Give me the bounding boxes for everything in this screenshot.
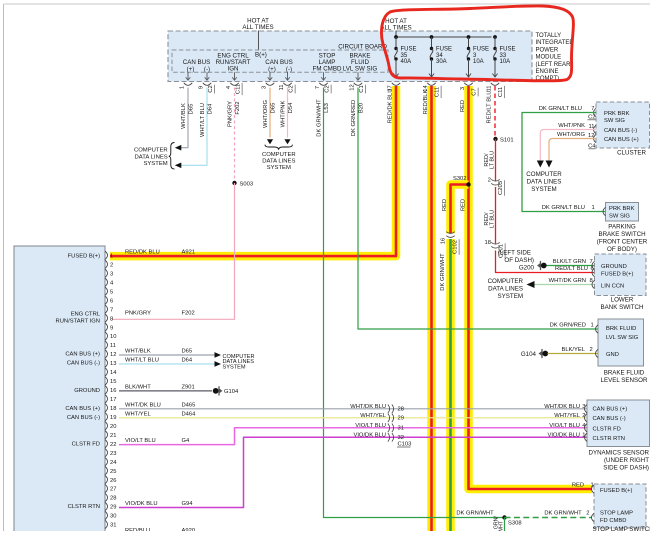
- svg-text:12: 12: [350, 84, 356, 90]
- brake fluid level sensor label: [601, 370, 648, 385]
- svg-text:BRAKE FLUID: BRAKE FLUID: [604, 370, 645, 377]
- wire WHT/PNK D54 from circuit board pin 11: [281, 88, 295, 138]
- svg-text:CAN BUS (-): CAN BUS (-): [593, 416, 626, 422]
- svg-text:C7: C7: [472, 88, 478, 95]
- svg-text:SW SIG: SW SIG: [604, 118, 625, 124]
- svg-text:GROUND: GROUND: [74, 388, 100, 394]
- fuse F3 3 10A: [466, 37, 489, 77]
- hot at all times label right: [380, 18, 411, 32]
- svg-text:18: 18: [110, 406, 116, 412]
- module box: [14, 246, 105, 535]
- svg-text:21: 21: [110, 433, 116, 439]
- svg-text:7: 7: [110, 307, 113, 313]
- svg-text:SIDE OF DASH): SIDE OF DASH): [603, 465, 649, 472]
- wire DK GRN/WHT L53 from circuit board pin 7: [317, 88, 505, 518]
- svg-text:WHT/DK BLU: WHT/DK BLU: [350, 404, 386, 410]
- splice S308: [502, 515, 521, 526]
- svg-text:DYNAMICS SENSOR: DYNAMICS SENSOR: [588, 450, 649, 457]
- circuit board label ENG CTRL RUN/START IGN: [216, 53, 251, 73]
- fuse output pin 3: [460, 83, 478, 97]
- wire RED branch S302 to C102 (highlighted): [442, 185, 469, 234]
- module pin labels: [56, 254, 101, 511]
- svg-text:WHT/PNK: WHT/PNK: [558, 123, 585, 129]
- brake fluid sensor pins: [596, 325, 599, 358]
- svg-text:G104: G104: [521, 351, 537, 358]
- svg-text:WHT/BLK: WHT/BLK: [125, 348, 151, 354]
- svg-text:7: 7: [591, 106, 594, 112]
- circuit board pin 7: [315, 72, 331, 93]
- svg-text:VIO/LT BLU: VIO/LT BLU: [355, 423, 386, 429]
- arrow right computer data 1: [215, 352, 222, 358]
- wire WHT/LT BLU D64 module pin 13: [119, 357, 215, 364]
- wire RED fuse 3 (highlighted): [460, 86, 594, 489]
- svg-text:PRK BRK: PRK BRK: [604, 111, 630, 117]
- fuse F33 33 10A: [492, 37, 515, 77]
- svg-text:LOWER: LOWER: [611, 297, 634, 304]
- svg-text:OF DASH): OF DASH): [504, 257, 534, 264]
- svg-text:D64: D64: [208, 103, 214, 114]
- circuit board pin 3: [262, 72, 275, 89]
- circuit board pin 11: [279, 72, 295, 93]
- svg-text:CAN BUS: CAN BUS: [183, 59, 211, 66]
- svg-text:CAN BUS (+): CAN BUS (+): [604, 137, 639, 143]
- fuse output pin 11: [486, 83, 504, 98]
- svg-text:C2: C2: [325, 85, 331, 92]
- cluster box: [596, 102, 650, 157]
- svg-text:2: 2: [488, 178, 491, 184]
- computer data lines system label module: [223, 354, 255, 371]
- svg-text:3: 3: [262, 86, 268, 89]
- svg-text:BLK/LT GRN: BLK/LT GRN: [553, 259, 586, 265]
- svg-text:COMPUTER: COMPUTER: [526, 171, 562, 178]
- wire VIO/LT BLU G4 module pin 22 to dynamics sensor: [119, 423, 587, 445]
- svg-text:17: 17: [387, 85, 393, 91]
- svg-text:WHT/LT BLU: WHT/LT BLU: [200, 103, 206, 137]
- svg-text:RED/LT BLU: RED/LT BLU: [555, 266, 588, 272]
- svg-text:D64: D64: [182, 357, 193, 363]
- wire PNK/GRY below S003 to module pin 8: [112, 183, 235, 319]
- svg-text:CAN BUS (+): CAN BUS (+): [65, 352, 100, 358]
- svg-text:CLSTR RTN: CLSTR RTN: [68, 504, 100, 510]
- svg-text:ENG CTRL: ENG CTRL: [71, 312, 101, 318]
- svg-text:WHT/ORG: WHT/ORG: [263, 100, 269, 129]
- wire WHT/YEL D464 module pin 19 to dynamics sensor: [119, 411, 587, 419]
- svg-text:2: 2: [586, 511, 589, 517]
- svg-text:LT BLU: LT BLU: [490, 151, 496, 169]
- svg-text:C203: C203: [498, 181, 504, 195]
- parking brake switch pin 1: [603, 207, 606, 215]
- circuit board label STOP LAMP FM CMBD: [313, 53, 342, 73]
- ground G200: [498, 250, 547, 272]
- svg-text:C11: C11: [435, 87, 441, 97]
- svg-text:L53: L53: [324, 103, 330, 113]
- svg-text:B(+): B(+): [255, 52, 267, 59]
- svg-text:DATA LINES: DATA LINES: [135, 155, 168, 161]
- svg-text:12: 12: [110, 352, 116, 358]
- svg-text:26: 26: [110, 478, 116, 484]
- svg-text:25: 25: [110, 469, 116, 475]
- svg-text:GND: GND: [606, 352, 619, 358]
- label PNK/GRY F202: [125, 311, 195, 317]
- svg-text:1: 1: [110, 254, 113, 260]
- computer data lines system label lower: [488, 278, 524, 300]
- svg-text:PARKING: PARKING: [608, 224, 636, 231]
- svg-text:SYSTEM: SYSTEM: [531, 186, 556, 193]
- svg-text:10: 10: [110, 334, 116, 340]
- svg-text:19: 19: [110, 415, 116, 421]
- svg-text:31: 31: [110, 523, 116, 529]
- wire DK GRN/RED B20 from circuit board pin 12: [351, 88, 598, 330]
- svg-text:Z901: Z901: [182, 384, 195, 390]
- svg-text:WHT/DK GRN: WHT/DK GRN: [549, 278, 586, 284]
- svg-text:RED: RED: [461, 199, 467, 211]
- svg-text:11: 11: [110, 343, 116, 349]
- connector C103: [388, 404, 411, 447]
- totally integrated power module box: [168, 31, 532, 82]
- svg-text:BANK SWITCH: BANK SWITCH: [601, 304, 644, 311]
- svg-text:POWER: POWER: [536, 47, 559, 53]
- svg-text:14: 14: [110, 370, 117, 376]
- svg-text:34: 34: [436, 53, 443, 59]
- B(+) feed wire: [255, 31, 267, 59]
- svg-text:10A: 10A: [500, 59, 511, 65]
- svg-text:LT BLU: LT BLU: [490, 210, 496, 228]
- svg-text:28: 28: [398, 406, 404, 412]
- svg-text:FUSE: FUSE: [401, 47, 417, 53]
- svg-text:40A: 40A: [401, 59, 412, 65]
- wire RED/DK BLU A921 fuse 35 to module pin 1 (highlighted): [110, 86, 396, 256]
- wire PNK/GRY F202 from circuit board pin 4: [228, 88, 242, 184]
- svg-text:S302: S302: [453, 176, 467, 182]
- svg-text:35: 35: [401, 53, 408, 59]
- wire WHT/DK BLU D465 module pin 18 to dynamics sensor: [119, 402, 587, 410]
- svg-text:D65: D65: [271, 103, 277, 114]
- svg-text:CIRCUIT BOARD: CIRCUIT BOARD: [338, 44, 387, 51]
- splice S302: [453, 176, 471, 187]
- svg-text:WHT/YEL: WHT/YEL: [360, 413, 387, 419]
- svg-text:DATA LINES: DATA LINES: [527, 179, 562, 186]
- svg-text:ALL TIMES: ALL TIMES: [380, 25, 411, 32]
- svg-text:DATA LINES: DATA LINES: [262, 158, 295, 164]
- svg-text:29: 29: [398, 415, 404, 421]
- svg-text:(-): (-): [286, 66, 292, 73]
- svg-text:G94: G94: [182, 501, 194, 507]
- svg-text:32: 32: [398, 435, 404, 441]
- svg-text:FUSE: FUSE: [500, 47, 516, 53]
- wire DK GRN/WHT dashed S308 to stop lamp switch: [505, 511, 593, 518]
- svg-text:6: 6: [110, 298, 113, 304]
- svg-text:ALL TIMES: ALL TIMES: [242, 24, 273, 31]
- svg-text:S003: S003: [240, 182, 254, 188]
- svg-text:D54: D54: [288, 102, 294, 113]
- dynamics sensor label: [588, 450, 649, 472]
- brace computer data lines: [265, 145, 292, 150]
- svg-text:PNK/GRY: PNK/GRY: [125, 311, 151, 317]
- wire RED/BLK fuse 34 (highlighted): [423, 86, 432, 531]
- arrow down computer data 1: [267, 139, 273, 144]
- circuit board label CAN BUS 1: [183, 59, 211, 73]
- svg-text:15: 15: [110, 379, 116, 385]
- arrow down computer data 2: [284, 139, 290, 144]
- svg-text:STOP LAMP: STOP LAMP: [600, 511, 633, 517]
- svg-text:DK GRN/WHT: DK GRN/WHT: [440, 253, 446, 291]
- svg-text:DK GRN/RED: DK GRN/RED: [351, 100, 357, 136]
- svg-text:ENGINE: ENGINE: [536, 69, 559, 75]
- svg-text:(+): (+): [268, 66, 276, 73]
- svg-text:COMPUTER: COMPUTER: [488, 278, 524, 285]
- svg-text:20: 20: [110, 424, 116, 430]
- svg-text:16: 16: [110, 388, 116, 394]
- svg-text:(-): (-): [204, 66, 210, 73]
- svg-text:30: 30: [110, 514, 116, 520]
- red highlighter circle: [381, 6, 573, 81]
- arrow down cluster data 1: [537, 161, 544, 168]
- splice S101: [493, 137, 513, 144]
- arrow right computer data 2: [215, 361, 222, 367]
- svg-text:GROUND: GROUND: [601, 264, 627, 270]
- svg-text:WHT/BLK: WHT/BLK: [181, 103, 187, 129]
- svg-text:LVL SW SIG: LVL SW SIG: [343, 66, 378, 73]
- svg-text:SYSTEM: SYSTEM: [223, 365, 246, 371]
- svg-text:16: 16: [441, 238, 447, 244]
- wire WHT/ORG cluster pin 12: [549, 132, 596, 162]
- wire WHT/DK GRN lower bank pin 8 to data lines: [534, 278, 595, 285]
- svg-text:TOTALLY: TOTALLY: [536, 33, 562, 39]
- svg-text:24: 24: [110, 460, 117, 466]
- svg-text:COMPUTER: COMPUTER: [262, 152, 296, 158]
- module pin 32 partial: [125, 528, 195, 534]
- svg-text:VIO/LT BLU: VIO/LT BLU: [549, 423, 580, 429]
- svg-text:18: 18: [485, 240, 491, 246]
- arrow to computer data lines 1: [175, 145, 182, 151]
- svg-text:C11: C11: [498, 87, 504, 97]
- wire BLK/LT GRN lower bank pin 7 to G200: [547, 259, 595, 266]
- svg-text:D465: D465: [182, 402, 196, 408]
- svg-text:C2: C2: [208, 85, 214, 92]
- svg-text:RED/LT BLU: RED/LT BLU: [487, 91, 493, 124]
- circuit board pin 1: [180, 72, 193, 89]
- svg-text:33: 33: [500, 53, 507, 59]
- svg-text:INTEGRATED: INTEGRATED: [536, 40, 575, 46]
- svg-text:CAN BUS (-): CAN BUS (-): [67, 361, 100, 367]
- svg-text:17: 17: [110, 397, 116, 403]
- svg-text:WHT/DK BLU: WHT/DK BLU: [125, 402, 161, 408]
- circuit board pin 9: [199, 72, 215, 93]
- svg-text:22: 22: [110, 442, 116, 448]
- fuse bus bar: [394, 35, 497, 39]
- stop lamp switch box: [594, 484, 646, 528]
- svg-text:G104: G104: [224, 389, 239, 395]
- computer data lines system label mid: [262, 152, 296, 171]
- svg-text:DK GRN/LT BLU: DK GRN/LT BLU: [542, 205, 585, 211]
- cluster pin 7: [588, 106, 597, 121]
- arrow down cluster data 2: [546, 161, 553, 168]
- svg-text:LEVEL SENSOR: LEVEL SENSOR: [601, 377, 648, 384]
- svg-text:B20: B20: [359, 103, 365, 113]
- svg-text:DK GRN/WHT: DK GRN/WHT: [544, 511, 582, 517]
- circuit board inner box: [172, 44, 388, 73]
- svg-text:CLSTR FD: CLSTR FD: [593, 426, 621, 432]
- brake fluid level sensor box: [598, 319, 644, 366]
- svg-text:OF BODY): OF BODY): [607, 246, 637, 253]
- cluster pin 11: [588, 124, 596, 134]
- svg-text:11: 11: [279, 84, 285, 90]
- svg-text:2: 2: [110, 262, 113, 268]
- wire DK GRN/WHT stub below S308: [494, 516, 505, 536]
- svg-text:FD CMBD: FD CMBD: [600, 518, 626, 524]
- computer data lines system label right: [526, 171, 562, 193]
- svg-text:DK GRN/RED: DK GRN/RED: [550, 323, 586, 329]
- splice S003: [232, 181, 253, 188]
- svg-text:LVL SW SIG: LVL SW SIG: [606, 335, 639, 341]
- wire DK GRN/LT BLU cluster pin 7 to parking brake switch: [522, 106, 606, 212]
- arrow to computer data lines 2: [175, 163, 182, 169]
- svg-text:RUN/START IGN: RUN/START IGN: [56, 319, 100, 325]
- fuse F35 35 40A: [393, 37, 416, 77]
- svg-text:WHT/YEL: WHT/YEL: [125, 411, 152, 417]
- wire RED/LT BLU C201 to lower bank switch: [496, 251, 595, 273]
- svg-text:CAN BUS (-): CAN BUS (-): [67, 415, 100, 421]
- wire RED/LT BLU S101 to C203: [484, 139, 496, 181]
- svg-text:RED/BLK: RED/BLK: [423, 89, 429, 114]
- svg-text:3: 3: [110, 271, 113, 277]
- svg-text:BRK FLUID: BRK FLUID: [606, 326, 636, 332]
- parking brake switch box: [606, 203, 639, 222]
- svg-text:C2: C2: [289, 85, 295, 92]
- stop lamp switch label: [593, 526, 650, 533]
- svg-text:C102: C102: [453, 240, 459, 254]
- wire VIO/DK BLU G94 module pin 29 to dynamics sensor: [119, 433, 587, 508]
- cluster pin 12: [588, 133, 596, 150]
- svg-text:WHT/LT BLU: WHT/LT BLU: [125, 357, 159, 363]
- svg-text:SW SIG: SW SIG: [609, 214, 630, 220]
- circuit board label BRAKE FLUID LVL SW SIG: [343, 53, 378, 73]
- svg-text:1: 1: [592, 205, 595, 211]
- svg-text:DK GRN/LT BLU: DK GRN/LT BLU: [539, 106, 582, 112]
- fuse feed stub: [395, 31, 397, 38]
- svg-text:7: 7: [315, 86, 321, 89]
- svg-text:G200: G200: [519, 265, 535, 272]
- svg-text:BLK/WHT: BLK/WHT: [125, 384, 151, 390]
- svg-text:SYSTEM: SYSTEM: [267, 165, 291, 171]
- svg-text:IGN: IGN: [227, 66, 238, 73]
- svg-text:28: 28: [110, 496, 116, 502]
- circuit board label CAN BUS 2: [265, 59, 293, 73]
- svg-text:WHT/ORG: WHT/ORG: [557, 132, 586, 138]
- svg-text:F202: F202: [182, 311, 195, 317]
- module pins 1-31: [105, 251, 117, 528]
- svg-text:WHT/YEL: WHT/YEL: [554, 413, 581, 419]
- svg-text:9: 9: [110, 325, 113, 331]
- connector C201 pin 18: [485, 240, 506, 259]
- svg-text:MODULE: MODULE: [536, 55, 562, 61]
- svg-text:DK GRN/WHT: DK GRN/WHT: [456, 511, 494, 517]
- svg-text:F202: F202: [235, 101, 241, 114]
- svg-text:CLSTR FD: CLSTR FD: [72, 442, 100, 448]
- hot at all times label left: [242, 18, 273, 32]
- svg-text:10A: 10A: [473, 59, 484, 65]
- dynamics sensor box: [587, 400, 650, 447]
- svg-text:(+): (+): [187, 66, 195, 73]
- cluster pin labels: [604, 111, 639, 143]
- svg-text:BLK/YEL: BLK/YEL: [561, 347, 585, 353]
- svg-text:WHT/DK BLU: WHT/DK BLU: [544, 404, 580, 410]
- svg-text:VIO/LT BLU: VIO/LT BLU: [125, 438, 156, 444]
- lower bank switch pins: [592, 261, 595, 288]
- svg-text:FUSE: FUSE: [473, 47, 489, 53]
- svg-text:31: 31: [398, 425, 404, 431]
- svg-text:VIO/DK BLU: VIO/DK BLU: [353, 433, 386, 439]
- svg-text:FUSED B(+): FUSED B(+): [68, 254, 100, 260]
- parking brake switch label: [597, 224, 648, 254]
- svg-text:FUSE: FUSE: [436, 47, 452, 53]
- ground G104 module: [213, 386, 239, 395]
- wire BLK/WHT Z901 module pin 16: [119, 384, 212, 391]
- svg-text:8: 8: [110, 316, 113, 322]
- svg-text:DATA LINES: DATA LINES: [488, 286, 523, 293]
- lower bank switch label: [601, 297, 644, 312]
- fuse output pin 17: [387, 83, 400, 92]
- svg-text:(UNDER RIGHT: (UNDER RIGHT: [604, 457, 649, 464]
- wire WHT/BLK D65 from circuit board pin 1: [181, 88, 195, 148]
- svg-text:CAN BUS (+): CAN BUS (+): [65, 406, 100, 412]
- svg-text:D65: D65: [189, 104, 195, 115]
- svg-text:RED/DK BLU: RED/DK BLU: [125, 249, 160, 255]
- svg-text:27: 27: [110, 487, 116, 493]
- wire WHT/ORG D65 from circuit board pin 3: [263, 88, 277, 138]
- svg-text:(LEFT SIDE: (LEFT SIDE: [498, 250, 531, 257]
- svg-text:RED: RED: [572, 483, 584, 489]
- wire WHT/PNK cluster pin 11: [540, 123, 596, 162]
- svg-text:SYSTEM: SYSTEM: [143, 161, 167, 167]
- svg-text:3: 3: [460, 87, 466, 90]
- svg-text:CLUSTER: CLUSTER: [617, 150, 646, 157]
- svg-text:14: 14: [423, 85, 429, 92]
- svg-text:S308: S308: [508, 521, 522, 527]
- svg-text:S101: S101: [500, 138, 514, 144]
- svg-text:(LEFT REAR: (LEFT REAR: [536, 62, 572, 68]
- computer data lines system label left: [134, 143, 175, 170]
- connector C102 pin 16: [441, 232, 460, 255]
- svg-text:C11: C11: [236, 84, 242, 94]
- svg-text:RED: RED: [442, 199, 448, 211]
- svg-text:RED/DK BLU: RED/DK BLU: [388, 89, 394, 124]
- wire BLK/YEL to brake fluid sensor GND: [548, 347, 599, 354]
- svg-text:2: 2: [590, 347, 593, 353]
- lower bank switch box: [595, 254, 647, 296]
- circuit board pin 12: [350, 72, 366, 93]
- svg-text:VIO/DK BLU: VIO/DK BLU: [547, 433, 580, 439]
- stop lamp switch pins: [592, 485, 595, 522]
- svg-text:VIO/DK BLU: VIO/DK BLU: [125, 501, 158, 507]
- svg-text:WHT/PNK: WHT/PNK: [281, 101, 287, 128]
- svg-text:FUSED B(+): FUSED B(+): [600, 488, 632, 494]
- svg-text:RED: RED: [460, 100, 466, 112]
- svg-text:LIN CCN: LIN CCN: [601, 284, 624, 290]
- svg-text:BRAKE SWITCH: BRAKE SWITCH: [598, 231, 645, 238]
- fuse F34 34 30A: [429, 37, 452, 77]
- svg-text:13: 13: [110, 361, 116, 367]
- svg-text:(FRONT CENTER: (FRONT CENTER: [597, 239, 648, 246]
- wire RED/LT BLU fuse 33 dashed segment: [487, 86, 496, 139]
- circuit board pin 4: [226, 72, 242, 95]
- svg-text:DK GRN/WHT: DK GRN/WHT: [317, 99, 323, 137]
- label RED/DK BLU A921: [125, 249, 195, 255]
- wire WHT/BLK D65 module pin 12: [119, 348, 215, 355]
- wire RED/LT BLU C203 to C201: [484, 187, 496, 244]
- svg-text:30A: 30A: [436, 59, 447, 65]
- svg-text:29: 29: [110, 505, 116, 511]
